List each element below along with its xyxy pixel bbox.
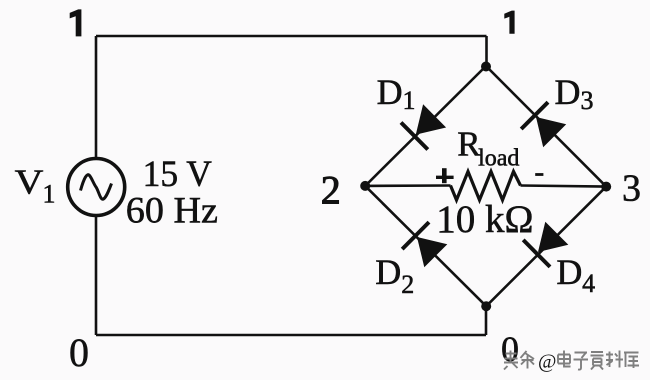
svg-text:D: D [556, 252, 582, 292]
svg-text:4: 4 [582, 269, 595, 298]
svg-text:V: V [15, 162, 44, 201]
svg-text:2: 2 [401, 270, 414, 299]
svg-text:D: D [375, 252, 401, 292]
svg-text:1: 1 [43, 180, 56, 209]
svg-text:0: 0 [69, 330, 89, 375]
svg-text:load: load [478, 146, 519, 172]
svg-text:@: @ [538, 351, 556, 373]
svg-text:2: 2 [321, 167, 341, 212]
svg-text:1: 1 [403, 86, 416, 115]
svg-text:10 kΩ: 10 kΩ [436, 198, 533, 241]
svg-text:15 V: 15 V [143, 154, 213, 195]
svg-text:60 Hz: 60 Hz [126, 191, 218, 232]
svg-text:D: D [377, 72, 403, 112]
svg-text:3: 3 [581, 86, 594, 115]
svg-text:3: 3 [622, 167, 641, 209]
svg-text:D: D [555, 72, 581, 112]
